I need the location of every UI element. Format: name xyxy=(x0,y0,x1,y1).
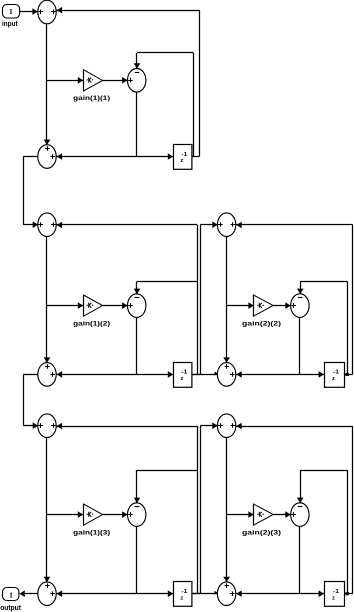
wire S31 sum2 output down to bus junction xyxy=(136,526,138,593)
sum block S21 output sum xyxy=(38,363,56,387)
sum block S31 middle sum xyxy=(128,503,146,527)
sum block S11 input sum xyxy=(38,0,56,24)
wire S21 delay output feedback riser xyxy=(192,374,201,376)
unit delay S31 delay xyxy=(174,582,192,607)
svg-text:z: z xyxy=(180,376,183,382)
wire A32 feedback to sum1 right input xyxy=(236,426,353,428)
wire A32 branch dot at delay output xyxy=(346,592,349,595)
wire S31 tap to gain input xyxy=(47,514,83,516)
wire S21 sum2 output down to bus junction xyxy=(136,317,138,374)
sum block S11 middle sum xyxy=(128,69,146,93)
wire A32 delay output feedback riser xyxy=(344,593,353,595)
svg-text:-1: -1 xyxy=(181,589,187,595)
wire A22 bus junction to delay input xyxy=(300,374,324,376)
wire A22 feedback to sum2 top input xyxy=(300,281,347,283)
gain block S31 xyxy=(84,504,103,526)
wire S11 delay output feedback riser xyxy=(192,156,200,158)
wire A32 gain output to sum2 xyxy=(273,514,291,516)
wire S31 feedback to sum2 top input xyxy=(137,470,197,472)
gain block S21 xyxy=(84,295,103,317)
sum block A22 middle sum xyxy=(291,294,309,318)
wire A22 tap to gain input xyxy=(227,305,254,307)
wire A22 gain output to sum2 xyxy=(273,305,291,307)
svg-text:gain(2)(2): gain(2)(2) xyxy=(242,320,281,327)
unit delay A32 delay xyxy=(325,582,345,607)
svg-text:1: 1 xyxy=(9,7,13,16)
wire A22 feedback to sum1 right input xyxy=(236,224,353,226)
wire S21 delay output to allpass section A22 top input xyxy=(200,225,202,375)
wire S31 delay output to allpass section A32 top input xyxy=(200,426,202,594)
svg-text:z: z xyxy=(180,595,183,601)
wire A32 feedback to sum2 top input xyxy=(300,470,347,472)
wire S31 bus junction to delay input xyxy=(137,593,174,595)
svg-text:z: z xyxy=(332,376,335,382)
sum block S31 input sum xyxy=(38,414,56,438)
wire S21 gain output to sum2 xyxy=(103,305,128,307)
wire S11 tap to gain input xyxy=(47,80,83,82)
sum block S11 output sum xyxy=(38,145,56,169)
sum block S21 middle sum xyxy=(128,294,146,318)
wire S21 feedback to sum1 right input xyxy=(56,224,197,226)
unit delay S21 delay xyxy=(174,363,192,388)
svg-text:-1: -1 xyxy=(181,370,187,376)
wire S21 sum1 output down to sum3 with gain tap xyxy=(46,237,48,363)
port block In1 xyxy=(3,5,20,19)
svg-text:z: z xyxy=(332,595,335,601)
wire A22 bus junction to sum3 right input xyxy=(236,374,300,376)
sum block A32 middle sum xyxy=(291,503,309,527)
gain block A22 xyxy=(254,295,274,317)
wire S11 bus junction to sum3 right input xyxy=(56,156,137,158)
wire A32 bus junction to delay input xyxy=(300,593,324,595)
sum block A22 output sum xyxy=(217,363,235,387)
sum block A32 output sum xyxy=(217,582,235,606)
wire A32 bus junction to sum3 right input xyxy=(236,593,300,595)
gain block A32 xyxy=(254,504,274,526)
svg-text:z: z xyxy=(180,158,183,164)
wire A32 sum2 output down to bus junction xyxy=(299,526,301,593)
wire section3 output to output port xyxy=(25,593,38,595)
wire S31 delay output to A32 bottom sum left input xyxy=(192,593,218,595)
wire S31 gain output to sum2 xyxy=(103,514,128,516)
svg-text:-1: -1 xyxy=(181,152,187,158)
sum block S31 output sum xyxy=(38,582,56,606)
wire S11 sum1 output down to sum3 with gain tap xyxy=(46,24,48,145)
svg-text:gain(1)(3): gain(1)(3) xyxy=(73,529,110,536)
svg-text:gain(2)(3): gain(2)(3) xyxy=(242,529,281,536)
port block Out1 xyxy=(3,588,19,601)
wire A32 tap to gain input xyxy=(227,514,254,516)
wire S31 bus junction to sum3 right input xyxy=(56,593,137,595)
wire section1 output to section2 input xyxy=(23,156,38,158)
wire A22 inner feedback riser xyxy=(347,282,349,375)
svg-text:output: output xyxy=(0,605,21,612)
wire S11 inner feedback riser xyxy=(193,53,195,157)
wire S21 delay output to A22 bottom sum left input xyxy=(192,374,218,376)
sum block S21 input sum xyxy=(38,213,56,237)
svg-text:input: input xyxy=(2,21,18,28)
svg-text:gain(1)(1): gain(1)(1) xyxy=(73,95,110,102)
wire A22 sum2 output down to bus junction xyxy=(299,317,301,374)
wire section2 output to section3 input xyxy=(23,374,38,376)
wire S11 feedback to sum1 right input xyxy=(56,10,199,12)
svg-text:-1: -1 xyxy=(333,589,339,595)
wire S11 sum2 output down to bus junction xyxy=(136,92,138,156)
unit delay S11 delay xyxy=(174,145,192,170)
wire S11 feedback to sum2 top input xyxy=(137,52,194,54)
wire S31 sum1 output down to sum3 with gain tap xyxy=(46,438,48,582)
gain block S11 xyxy=(84,69,103,91)
wire S11 gain output to sum2 xyxy=(103,80,128,82)
wire S21 bus junction to sum3 right input xyxy=(56,374,137,376)
wire A22 sum1 output down to sum3 with gain tap xyxy=(226,237,228,363)
wire input port to section1 sum1 xyxy=(19,11,33,13)
wire A32 sum1 output down to sum3 with gain tap xyxy=(226,438,228,582)
unit delay A22 delay xyxy=(325,363,345,388)
wire S21 tap to gain input xyxy=(47,305,83,307)
wire S31 feedback to sum1 right input xyxy=(56,426,197,428)
sum block A22 input sum xyxy=(217,213,235,237)
wire S21 feedback to sum2 top input xyxy=(137,281,197,283)
wire S11 bus junction to delay input xyxy=(137,156,174,158)
wire A32 inner feedback riser xyxy=(347,470,349,594)
svg-text:gain(1)(2): gain(1)(2) xyxy=(73,320,110,327)
svg-text:-1: -1 xyxy=(333,370,339,376)
wire S21 bus junction to delay input xyxy=(137,374,174,376)
svg-text:1: 1 xyxy=(9,590,13,599)
wire A22 branch dot at delay output xyxy=(346,373,349,376)
wire A22 delay output feedback riser xyxy=(344,374,353,376)
wire S31 delay output feedback riser xyxy=(192,593,201,595)
sum block A32 input sum xyxy=(217,414,235,438)
